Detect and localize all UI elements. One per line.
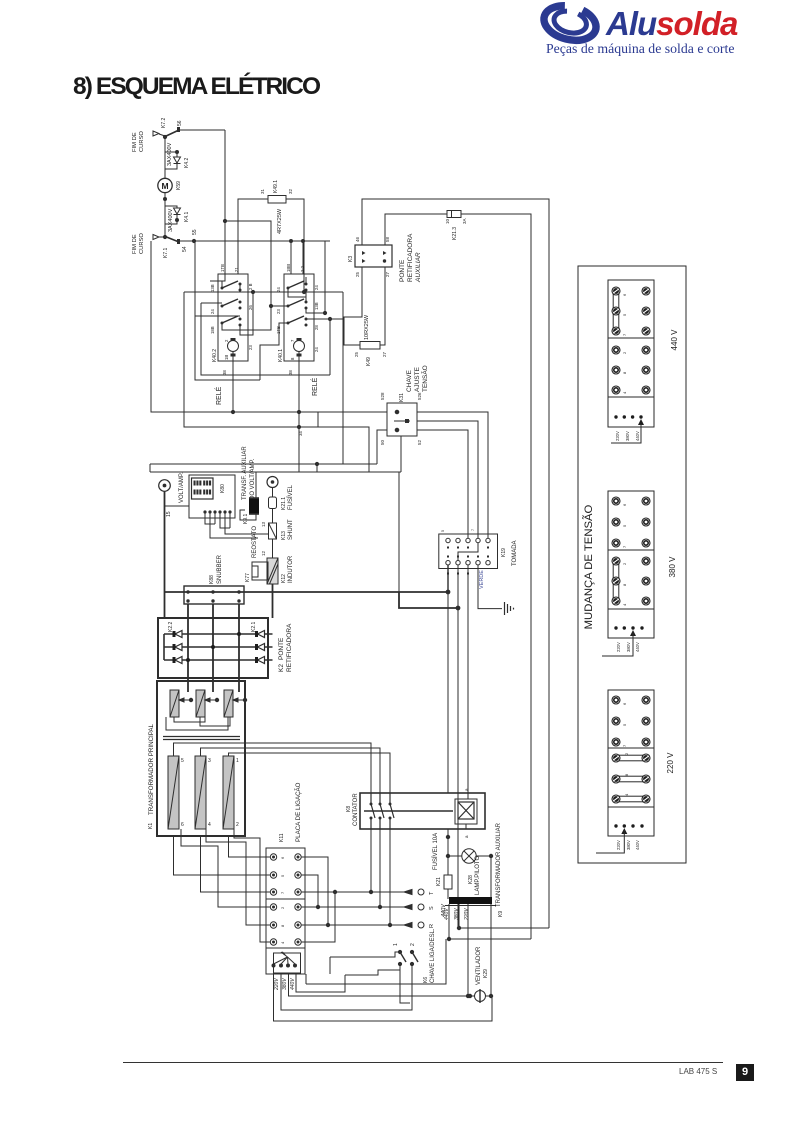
svg-text:4R7X25W: 4R7X25W	[277, 208, 283, 234]
svg-text:K4.2: K4.2	[184, 157, 190, 168]
svg-text:380V: 380V	[626, 642, 631, 652]
svg-text:K4.1: K4.1	[184, 211, 190, 222]
svg-text:38: 38	[288, 370, 293, 375]
svg-text:K21: K21	[436, 877, 442, 886]
svg-text:1BB: 1BB	[286, 264, 291, 272]
svg-text:3: 3	[208, 758, 211, 764]
svg-text:220V: 220V	[615, 431, 620, 441]
svg-text:7: 7	[622, 333, 627, 336]
svg-text:FUSÍVEL 10A: FUSÍVEL 10A	[432, 833, 439, 870]
svg-text:52: 52	[417, 439, 422, 445]
svg-text:440 V: 440 V	[670, 329, 679, 351]
svg-text:58: 58	[385, 236, 390, 242]
svg-text:28: 28	[314, 325, 319, 330]
svg-text:K12: K12	[281, 574, 287, 583]
svg-text:K7.1: K7.1	[163, 247, 169, 258]
svg-text:K2: K2	[278, 664, 285, 672]
svg-text:K59: K59	[176, 181, 182, 190]
svg-text:CONTATOR: CONTATOR	[353, 793, 359, 826]
svg-text:526: 526	[417, 392, 422, 400]
svg-text:CHAVE: CHAVE	[406, 369, 413, 392]
svg-text:23: 23	[248, 345, 253, 350]
svg-text:5: 5	[622, 313, 627, 316]
svg-text:R: R	[429, 924, 435, 928]
svg-text:RETIFICADORA: RETIFICADORA	[286, 623, 293, 672]
svg-text:PLACA DE LIGAÇÃO: PLACA DE LIGAÇÃO	[295, 782, 302, 842]
svg-text:2: 2	[622, 351, 627, 354]
svg-text:380V: 380V	[626, 840, 631, 850]
svg-text:5: 5	[622, 524, 627, 527]
svg-text:13B: 13B	[314, 302, 319, 310]
svg-text:8: 8	[624, 773, 629, 776]
svg-text:VOLT/AMP.: VOLT/AMP.	[179, 472, 185, 503]
svg-text:23: 23	[276, 309, 281, 314]
svg-text:CHAVE LIGA/DESL.: CHAVE LIGA/DESL.	[430, 928, 436, 983]
svg-text:SNUBBER: SNUBBER	[217, 554, 223, 584]
svg-text:5: 5	[441, 530, 445, 532]
svg-text:LAMP.PILOTO: LAMP.PILOTO	[475, 856, 481, 895]
svg-text:K49.1: K49.1	[273, 180, 279, 193]
svg-text:1: 1	[393, 943, 399, 946]
svg-text:RELÉ: RELÉ	[214, 386, 223, 405]
svg-text:6: 6	[280, 856, 285, 859]
svg-text:13: 13	[261, 521, 266, 527]
svg-text:46: 46	[355, 236, 360, 242]
svg-text:220V: 220V	[464, 908, 470, 921]
svg-text:RELÉ: RELÉ	[310, 377, 319, 396]
svg-text:24: 24	[276, 287, 281, 292]
svg-text:6: 6	[622, 702, 627, 705]
svg-text:K13: K13	[281, 531, 287, 540]
svg-text:K31: K31	[399, 393, 405, 402]
svg-text:15: 15	[166, 511, 172, 517]
svg-text:4: 4	[208, 822, 211, 828]
svg-text:7: 7	[280, 891, 285, 894]
svg-text:380V: 380V	[625, 431, 630, 441]
svg-text:220V: 220V	[616, 840, 621, 850]
svg-text:K21.3: K21.3	[452, 227, 458, 240]
svg-text:SHUNT: SHUNT	[288, 519, 294, 540]
svg-text:2: 2	[236, 822, 239, 828]
svg-text:K28: K28	[468, 875, 474, 884]
svg-text:24: 24	[210, 309, 215, 314]
svg-text:440V: 440V	[635, 642, 640, 652]
svg-text:380V: 380V	[282, 978, 288, 990]
svg-text:T: T	[429, 891, 435, 895]
svg-text:25: 25	[355, 271, 360, 277]
svg-text:7: 7	[471, 529, 475, 531]
svg-text:K9: K9	[498, 911, 504, 917]
svg-text:10RX25W: 10RX25W	[364, 314, 370, 340]
svg-text:TRANSFORMADOR AUXILIAR: TRANSFORMADOR AUXILIAR	[496, 822, 502, 907]
svg-text:CURSO: CURSO	[139, 233, 145, 254]
svg-text:2: 2	[410, 943, 416, 946]
svg-text:25: 25	[354, 351, 359, 357]
svg-text:18B: 18B	[210, 326, 215, 334]
svg-text:K88: K88	[209, 575, 215, 584]
svg-text:FIM DE: FIM DE	[132, 132, 138, 152]
svg-text:220V: 220V	[616, 642, 621, 652]
svg-text:55: 55	[192, 229, 198, 235]
svg-text:K19: K19	[501, 548, 507, 557]
svg-text:5: 5	[280, 874, 285, 877]
svg-text:31: 31	[260, 188, 265, 194]
svg-text:27: 27	[385, 271, 390, 277]
svg-text:K8: K8	[346, 806, 352, 812]
svg-text:50: 50	[380, 439, 385, 445]
svg-text:AUXILIAR: AUXILIAR	[415, 252, 422, 283]
svg-text:K21.1: K21.1	[281, 497, 287, 510]
svg-text:TENSÃO: TENSÃO	[420, 365, 429, 392]
svg-text:REOSTATO: REOSTATO	[252, 526, 258, 558]
svg-text:24: 24	[314, 285, 319, 290]
svg-text:TOMADA: TOMADA	[512, 540, 518, 566]
svg-text:1TB: 1TB	[220, 264, 225, 272]
svg-text:10: 10	[445, 218, 450, 224]
svg-text:TRANSF. AUXILIAR: TRANSF. AUXILIAR	[242, 446, 248, 500]
svg-text:6: 6	[622, 293, 627, 296]
svg-text:PONTE: PONTE	[399, 259, 406, 282]
svg-text:VENTILADOR: VENTILADOR	[476, 946, 482, 985]
svg-text:2.2: 2.2	[300, 265, 305, 272]
svg-text:54: 54	[182, 246, 188, 252]
svg-text:K29: K29	[483, 969, 489, 978]
svg-text:12: 12	[261, 550, 266, 556]
svg-text:7: 7	[290, 339, 295, 342]
svg-text:PONTE: PONTE	[278, 637, 285, 660]
svg-text:FUSÍVEL: FUSÍVEL	[287, 484, 294, 510]
svg-text:21: 21	[234, 267, 239, 272]
svg-text:DO VOLT/AMP.: DO VOLT/AMP.	[250, 458, 256, 500]
svg-text:528: 528	[380, 392, 385, 400]
svg-text:7: 7	[622, 545, 627, 548]
svg-text:a: a	[464, 835, 469, 838]
svg-text:CURSO: CURSO	[139, 131, 145, 152]
svg-text:6: 6	[622, 503, 627, 506]
svg-text:2: 2	[624, 752, 629, 755]
svg-text:K3: K3	[348, 256, 354, 262]
svg-text:8: 8	[622, 583, 627, 586]
svg-text:220 V: 220 V	[666, 752, 675, 774]
svg-text:4: 4	[622, 391, 627, 394]
svg-text:TRANSFORMADOR PRINCIPAL: TRANSFORMADOR PRINCIPAL	[148, 723, 155, 815]
svg-text:8: 8	[280, 924, 285, 927]
svg-text:5: 5	[622, 723, 627, 726]
svg-text:440V: 440V	[635, 431, 640, 441]
svg-text:K2.1: K2.1	[251, 621, 257, 632]
svg-text:K11: K11	[279, 833, 285, 842]
svg-text:56: 56	[177, 120, 183, 126]
svg-text:S: S	[429, 906, 435, 910]
svg-text:440V: 440V	[635, 840, 640, 850]
svg-text:2: 2	[224, 339, 229, 342]
svg-text:32: 32	[288, 188, 293, 194]
svg-text:2 B: 2 B	[248, 283, 253, 290]
svg-text:K6: K6	[423, 977, 429, 983]
svg-text:AJUSTE: AJUSTE	[414, 366, 421, 392]
svg-text:2: 2	[622, 562, 627, 565]
svg-text:1B: 1B	[224, 355, 229, 360]
svg-text:K40.2: K40.2	[212, 349, 218, 362]
svg-text:38: 38	[222, 370, 227, 375]
svg-text:4: 4	[622, 603, 627, 606]
svg-text:M: M	[161, 181, 168, 191]
svg-text:8: 8	[290, 357, 295, 360]
svg-text:3AX400V: 3AX400V	[168, 208, 174, 232]
svg-text:K49: K49	[366, 357, 372, 366]
svg-text:VERDE: VERDE	[479, 570, 485, 589]
svg-text:27: 27	[382, 351, 387, 357]
svg-text:380 V: 380 V	[668, 556, 677, 578]
svg-text:4: 4	[624, 793, 629, 796]
svg-text:24: 24	[314, 347, 319, 352]
svg-text:7: 7	[622, 744, 627, 747]
svg-text:440V: 440V	[290, 978, 296, 990]
svg-text:K7.2: K7.2	[161, 117, 167, 128]
svg-text:3A: 3A	[462, 218, 467, 224]
svg-text:3AX400V: 3AX400V	[167, 142, 173, 166]
svg-text:2: 2	[280, 906, 285, 909]
svg-text:8: 8	[622, 371, 627, 374]
svg-text:K80: K80	[220, 484, 226, 493]
svg-text:K1: K1	[148, 823, 154, 829]
svg-text:26: 26	[248, 305, 253, 310]
svg-text:5: 5	[181, 758, 184, 764]
svg-text:6: 6	[181, 822, 184, 828]
svg-text:RETIFICADORA: RETIFICADORA	[407, 233, 414, 282]
svg-text:INDUTOR: INDUTOR	[288, 555, 294, 583]
svg-text:FIM DE: FIM DE	[132, 234, 138, 254]
svg-text:K2.2: K2.2	[168, 621, 174, 632]
svg-text:MUDANÇA DE TENSÃO: MUDANÇA DE TENSÃO	[582, 504, 595, 629]
svg-text:K9.1: K9.1	[243, 513, 249, 524]
svg-text:K77: K77	[245, 573, 251, 582]
svg-text:220V: 220V	[274, 978, 280, 991]
svg-text:13B: 13B	[210, 284, 215, 292]
svg-text:1: 1	[236, 758, 239, 764]
svg-text:K40.1: K40.1	[278, 349, 284, 362]
svg-text:4: 4	[280, 941, 285, 944]
